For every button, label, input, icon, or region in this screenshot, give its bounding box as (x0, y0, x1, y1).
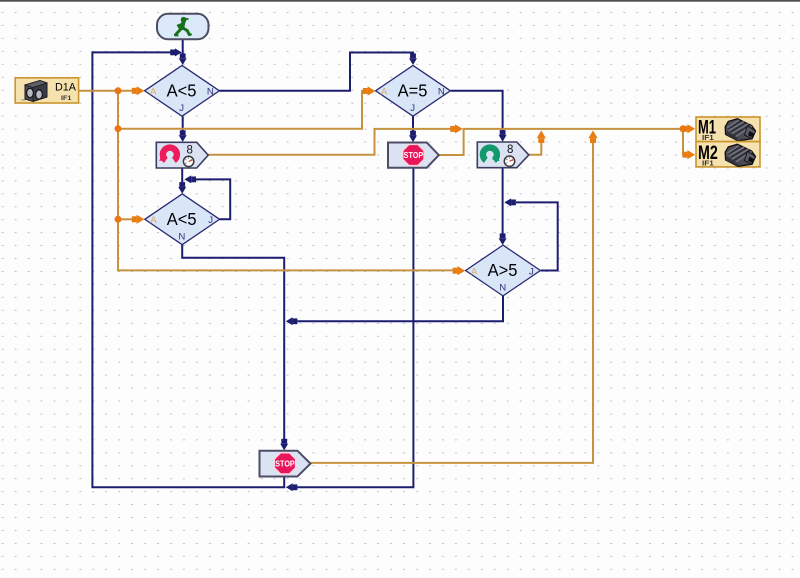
wire: A=5 J down to STOP1 (412, 116, 414, 133)
red motor command element (ccw, speed 8) (156, 142, 208, 168)
green cw arrow icon (483, 148, 497, 161)
arrow: merge into start wire at (182,52) (175, 48, 182, 56)
arrow: into A=5 A (368, 86, 376, 95)
D1A input element (15, 78, 78, 103)
svg-text:IF1: IF1 (702, 133, 714, 142)
svg-text:A<5: A<5 (167, 209, 197, 229)
orange wire: D1A output to junction and into diamond1 A input (79, 90, 132, 92)
M2 motor output element (696, 142, 760, 168)
arrow: into diamond2 A (137, 215, 145, 224)
arrow: into A>5 top (499, 238, 507, 245)
wire: A>5 N down then left merging into STOP2 feed wire (298, 296, 504, 321)
orange wire: STOP2 tip right and long up merging into main line (311, 142, 594, 463)
wire: A=5 N right then down to green motor (451, 91, 503, 133)
svg-text:N: N (207, 87, 214, 98)
arrow: into diamond1 top (179, 58, 187, 65)
start element (stadium with green walking man) (157, 14, 209, 40)
arrow: merge at (463,129) (455, 124, 463, 133)
svg-text:IF1: IF1 (702, 159, 714, 168)
svg-text:8: 8 (507, 144, 513, 156)
arrow: into red motor top (179, 135, 187, 142)
svg-text:J: J (529, 266, 534, 277)
svg-text:J: J (410, 103, 415, 114)
wire: STOP1 bottom long down then left merging into bottom loop (298, 168, 414, 488)
wire: red motor bottom to diamond2 top (181, 168, 183, 185)
diamond2 decision A<5 (second) (145, 194, 220, 245)
diamond1 decision A<5 (145, 65, 220, 116)
orange wire: red motor tip right, up, right merging into STOP1 output wire (208, 129, 451, 155)
arrow: into A>5 A (457, 266, 465, 275)
orange wire: branch at y128 right then up into A=5 A input (118, 91, 364, 129)
arrow: into STOP1 top (409, 135, 417, 142)
arrow: merge pointing up at (593,130) (588, 130, 597, 138)
wire: big return loop from STOP2 bottom left-up-right into start wire (92, 52, 284, 487)
orange wire: branch into diamond2 A input (118, 218, 132, 220)
svg-text:A: A (471, 266, 478, 277)
svg-text:A=5: A=5 (398, 80, 428, 100)
svg-text:A<5: A<5 (167, 80, 197, 100)
green motor command element (cw, speed 8) (477, 142, 529, 168)
arrow: merge into vertical wire at (284,321) (286, 317, 293, 325)
green man icon (175, 17, 191, 36)
diamond A=5 decision (376, 65, 451, 116)
arrow: into STOP2 top (280, 444, 288, 451)
svg-text:N: N (438, 87, 445, 98)
arrow: merge pointing up at (541,130) (537, 130, 546, 138)
motor icon M2 (725, 144, 755, 166)
arrow: merge into red-motor-to-diamond2 wire (184, 175, 191, 183)
sensor icon (21, 81, 47, 102)
svg-text:A>5: A>5 (488, 260, 518, 280)
arrow: merge into bottom loop at (284,487) (286, 483, 293, 491)
top toolbar edge line (0, 0, 800, 2)
wire: start to diamond A<5 top (182, 39, 184, 56)
arrow: into diamond2 top (178, 187, 186, 194)
orange wire: STOP1 tip up and right to M1/M2 junction (439, 129, 683, 155)
wire: diamond2 J loop right-up-left merging above diamond2 (196, 179, 230, 219)
svg-text:J: J (179, 103, 184, 114)
orange wire: green motor tip up merging into main line (529, 142, 542, 155)
arrow: into M1 (687, 124, 695, 133)
svg-text:A: A (150, 87, 157, 98)
STOP2 command element (260, 451, 311, 477)
junction dot at (683,128.8) (680, 125, 687, 132)
junction dot at (118,128.7) (115, 125, 122, 132)
orange wire: junction to M1 input and down to M2 input (683, 129, 688, 155)
arrow: into M2 (687, 150, 695, 159)
svg-text:N: N (499, 283, 506, 294)
wire: diamond2 N down, right, long down to STOP2 (182, 245, 284, 440)
svg-text:STOP: STOP (404, 150, 424, 160)
red ccw arrow icon (163, 148, 177, 161)
M1 motor output element (696, 117, 760, 142)
svg-text:IF1: IF1 (61, 95, 72, 102)
junction dot at (118,91) (115, 87, 122, 94)
wire: A>5 J loop right-up-left merging into green-motor wire (516, 202, 558, 270)
svg-text:A: A (381, 87, 388, 98)
svg-text:STOP: STOP (275, 459, 295, 469)
STOP1 command element (388, 143, 439, 168)
arrow: into A=5 top (409, 58, 417, 65)
gauge icon (183, 156, 193, 166)
gauge icon (504, 156, 514, 166)
wire: green motor bottom down to A>5 top (502, 168, 504, 237)
orange wire: junction down the left side then right to A>5 A input (118, 91, 453, 271)
wire: diamond1 J down to red motor (182, 116, 184, 132)
svg-text:J: J (208, 215, 213, 226)
svg-text:N: N (178, 231, 185, 242)
motor icon M1 (725, 119, 755, 141)
wire: diamond1 N to A=5 top (219, 53, 413, 91)
arrow: into diamond1 A (137, 86, 145, 95)
arrow: merge into green motor vertical at (504,202) (504, 198, 511, 206)
arrow: into green motor top (499, 135, 507, 142)
svg-text:D1A: D1A (55, 82, 77, 94)
svg-text:A: A (150, 215, 157, 226)
svg-text:8: 8 (186, 144, 192, 156)
diamond A>5 decision (466, 245, 541, 296)
stop octagon (403, 144, 424, 165)
junction dot at (118,219.3) (115, 216, 122, 223)
stop octagon (274, 453, 295, 474)
